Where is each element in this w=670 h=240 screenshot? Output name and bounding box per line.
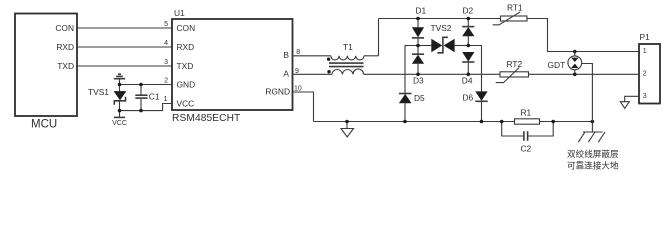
svg-text:RXD: RXD	[177, 42, 195, 52]
wire A (U1 pin 9 to T1)	[293, 73, 332, 75]
svg-text:D1: D1	[416, 5, 427, 15]
svg-text:GDT: GDT	[548, 60, 566, 70]
resistor R1	[515, 108, 540, 125]
wire M1 left extension to D5 column	[405, 46, 418, 94]
resistor RT1 (PTC)	[493, 3, 527, 25]
diode D6	[463, 91, 488, 121]
diode D1	[412, 5, 427, 45]
svg-text:CON: CON	[177, 23, 196, 33]
svg-text:可靠连接大地: 可靠连接大地	[567, 160, 619, 171]
diode D4	[462, 52, 475, 86]
wire GND rail (U1 pin 2 to TVS1/C1)	[120, 84, 173, 86]
svg-text:VCC: VCC	[177, 98, 195, 108]
note text (Chinese)	[567, 148, 619, 171]
svg-text:RXD: RXD	[56, 42, 74, 52]
svg-text:VCC: VCC	[112, 120, 127, 127]
node dots on rails	[416, 17, 420, 21]
svg-text:D3: D3	[413, 76, 424, 86]
wire TXD (MCU to U1 pin 3)	[77, 65, 172, 67]
svg-text:8: 8	[296, 49, 300, 56]
node GDT bottom	[573, 73, 577, 77]
chassis ground (hatched)	[578, 122, 605, 143]
diode D5	[399, 93, 425, 122]
svg-text:C2: C2	[521, 144, 532, 154]
capacitor C2	[502, 122, 554, 154]
svg-text:TVS1: TVS1	[88, 87, 109, 97]
svg-text:D6: D6	[463, 93, 474, 103]
transformer T1	[327, 42, 379, 74]
diode D2	[462, 5, 474, 45]
svg-text:C1: C1	[149, 92, 160, 102]
wire B (U1 pin 8 to T1)	[293, 55, 331, 57]
wire T1 top to top rail	[378, 19, 380, 56]
node junction C1 bottom	[139, 109, 143, 113]
wire RGND (U1 pin 10 down to ground rail)	[293, 92, 314, 122]
wire top rail (to RT1)	[379, 18, 501, 20]
svg-text:RT2: RT2	[507, 59, 523, 69]
svg-text:TXD: TXD	[177, 61, 194, 71]
node GND junction at TVS1 top	[118, 83, 122, 87]
svg-text:U1: U1	[174, 8, 185, 18]
svg-text:P1: P1	[640, 32, 651, 42]
svg-text:3: 3	[643, 93, 647, 100]
svg-text:D4: D4	[462, 76, 473, 86]
ground rail	[314, 121, 515, 123]
node dots on ground rail	[345, 120, 349, 124]
ground symbol (open triangle) on rail	[341, 122, 354, 138]
ground symbol (open triangle) at P1 pin3	[620, 102, 629, 109]
svg-text:4: 4	[164, 40, 168, 47]
svg-text:T1: T1	[343, 42, 353, 52]
node GDT top	[573, 50, 577, 54]
wire RXD (MCU to U1 pin 4)	[77, 46, 172, 48]
node junction TVS1 bottom	[118, 109, 122, 113]
GDT gas discharge tube	[548, 52, 593, 122]
svg-text:MCU: MCU	[31, 119, 57, 131]
svg-text:RSM485ECHT: RSM485ECHT	[172, 113, 240, 124]
svg-text:双绞线屏蔽层: 双绞线屏蔽层	[567, 148, 619, 159]
svg-text:B: B	[283, 50, 289, 60]
wire RT1 to P1 pin1	[527, 19, 639, 52]
TVS2 bidirectional	[418, 23, 468, 53]
svg-text:CON: CON	[55, 23, 74, 33]
svg-text:1: 1	[164, 96, 168, 103]
op-amp U1 RSM485ECHT box	[172, 8, 293, 124]
TVS1 diode	[88, 85, 126, 111]
svg-text:2: 2	[164, 78, 168, 85]
wire A line (T1 to RT2)	[364, 73, 501, 75]
connector P1	[639, 32, 660, 104]
resistor RT2 (PTC)	[496, 59, 529, 83]
wire P1 pin3 to earth	[625, 96, 639, 101]
MCU box	[15, 14, 77, 131]
ground earth (above TVS1)	[114, 74, 125, 84]
diode D3	[412, 46, 424, 86]
wire RT2 to P1 pin2	[529, 73, 640, 75]
svg-text:TXD: TXD	[57, 61, 74, 71]
svg-text:TVS2: TVS2	[431, 23, 452, 33]
node junction C1 top	[139, 83, 143, 87]
wire CON (MCU to U1 pin 5)	[77, 27, 172, 29]
svg-text:1: 1	[643, 48, 647, 55]
wire M2 right extension to D6 column	[468, 46, 481, 92]
svg-text:3: 3	[164, 59, 168, 66]
svg-text:5: 5	[164, 21, 168, 28]
svg-text:GND: GND	[177, 79, 196, 89]
capacitor C1	[135, 85, 160, 111]
wire VCC rail (U1 pin 1 to TVS1/C1)	[120, 104, 173, 111]
svg-text:D2: D2	[463, 5, 474, 15]
svg-text:R1: R1	[521, 108, 532, 118]
svg-text:RGND: RGND	[265, 87, 290, 97]
VCC power tap	[112, 111, 127, 127]
svg-text:D5: D5	[414, 93, 425, 103]
svg-text:2: 2	[643, 71, 647, 78]
svg-text:A: A	[283, 69, 289, 79]
svg-text:RT1: RT1	[507, 3, 523, 13]
